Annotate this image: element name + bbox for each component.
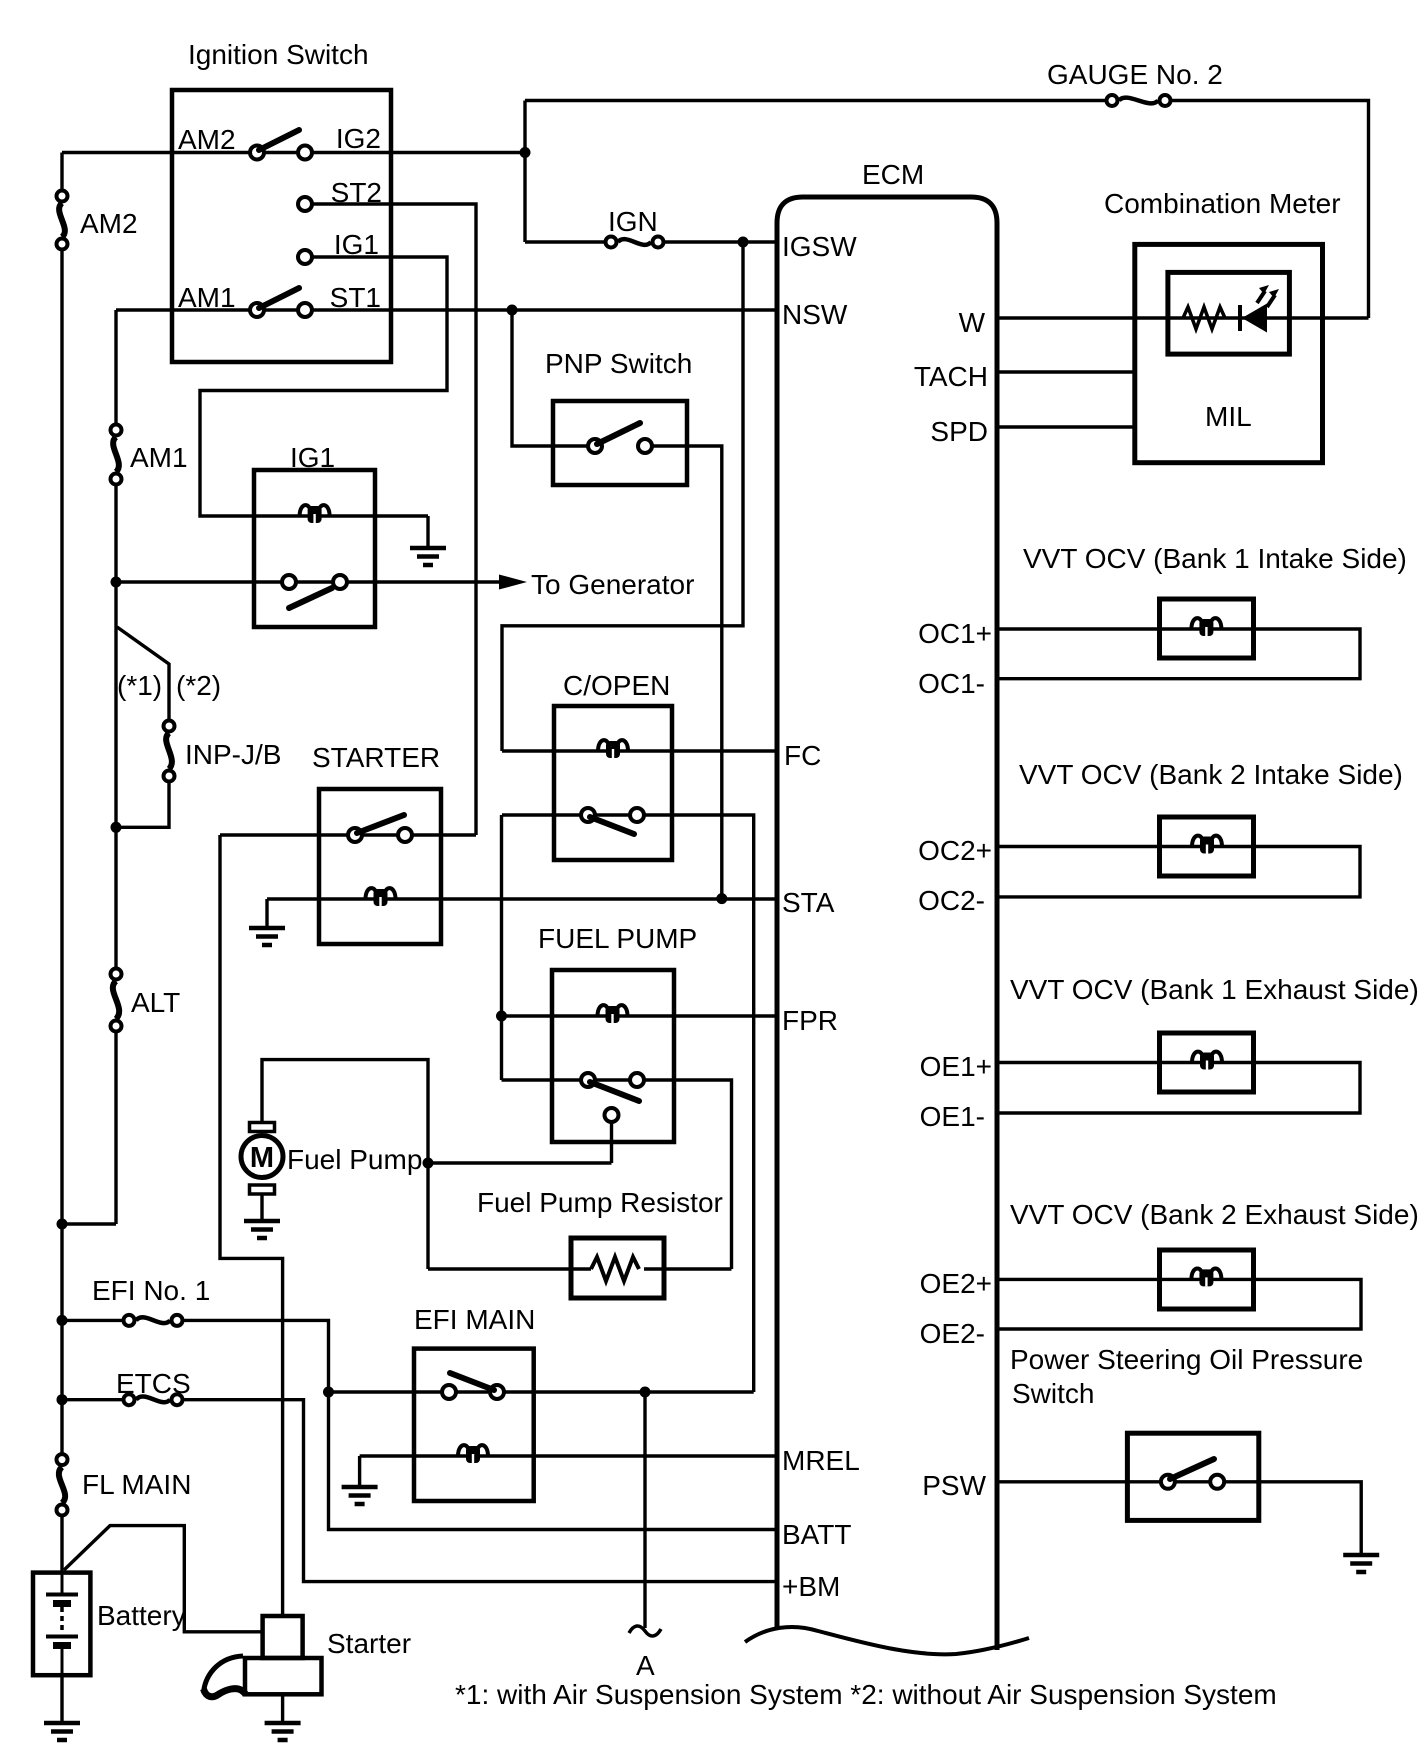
svg-text:(*1): (*1) [117, 670, 162, 701]
svg-text:ECM: ECM [862, 159, 924, 190]
svg-text:C/OPEN: C/OPEN [563, 670, 670, 701]
svg-text:INP-J/B: INP-J/B [185, 739, 281, 770]
svg-text:AM1: AM1 [178, 282, 236, 313]
svg-text:IG1: IG1 [290, 442, 335, 473]
svg-text:STARTER: STARTER [312, 742, 440, 773]
svg-text:PSW: PSW [922, 1470, 986, 1501]
svg-text:OC1-: OC1- [918, 668, 985, 699]
svg-text:TACH: TACH [914, 361, 988, 392]
svg-text:OC2+: OC2+ [918, 835, 992, 866]
svg-text:(*2): (*2) [176, 670, 221, 701]
svg-text:OC2-: OC2- [918, 885, 985, 916]
svg-text:VVT OCV (Bank 1 Exhaust Side): VVT OCV (Bank 1 Exhaust Side) [1010, 974, 1419, 1005]
svg-text:Starter: Starter [327, 1628, 411, 1659]
svg-text:MIL: MIL [1205, 401, 1252, 432]
svg-text:FPR: FPR [782, 1005, 838, 1036]
svg-text:Power Steering Oil Pressure: Power Steering Oil Pressure [1010, 1344, 1363, 1375]
svg-text:FUEL PUMP: FUEL PUMP [538, 923, 697, 954]
svg-text:OE2+: OE2+ [920, 1268, 992, 1299]
svg-text:IG2: IG2 [336, 123, 381, 154]
svg-text:A: A [636, 1650, 655, 1681]
svg-text:*1: with Air Suspension System: *1: with Air Suspension System *2: witho… [455, 1679, 1277, 1710]
svg-text:VVT OCV (Bank 2 Intake Side): VVT OCV (Bank 2 Intake Side) [1019, 759, 1403, 790]
svg-text:AM2: AM2 [178, 124, 236, 155]
svg-text:AM1: AM1 [130, 442, 188, 473]
svg-text:W: W [959, 307, 986, 338]
svg-text:GAUGE No. 2: GAUGE No. 2 [1047, 59, 1223, 90]
svg-text:IG1: IG1 [334, 229, 379, 260]
svg-text:OC1+: OC1+ [918, 618, 992, 649]
svg-text:OE1-: OE1- [920, 1101, 985, 1132]
svg-text:FL MAIN: FL MAIN [82, 1469, 191, 1500]
svg-text:Ignition Switch: Ignition Switch [188, 39, 369, 70]
svg-text:IGSW: IGSW [782, 231, 857, 262]
svg-text:BATT: BATT [782, 1519, 851, 1550]
svg-text:EFI No. 1: EFI No. 1 [92, 1275, 210, 1306]
svg-text:Fuel Pump Resistor: Fuel Pump Resistor [477, 1187, 723, 1218]
svg-text:IGN: IGN [608, 206, 658, 237]
svg-text:FC: FC [784, 740, 821, 771]
svg-text:EFI MAIN: EFI MAIN [414, 1304, 535, 1335]
svg-text:STA: STA [782, 887, 835, 918]
svg-text:OE1+: OE1+ [920, 1051, 992, 1082]
svg-text:ALT: ALT [131, 987, 180, 1018]
svg-text:ETCS: ETCS [116, 1368, 191, 1399]
svg-text:VVT OCV (Bank 1 Intake Side): VVT OCV (Bank 1 Intake Side) [1023, 543, 1407, 574]
svg-text:PNP Switch: PNP Switch [545, 348, 692, 379]
svg-text:NSW: NSW [782, 299, 848, 330]
svg-text:OE2-: OE2- [920, 1318, 985, 1349]
svg-text:VVT OCV (Bank 2 Exhaust Side): VVT OCV (Bank 2 Exhaust Side) [1010, 1199, 1419, 1230]
svg-text:Fuel Pump: Fuel Pump [287, 1144, 422, 1175]
svg-text:Combination Meter: Combination Meter [1104, 188, 1341, 219]
svg-text:AM2: AM2 [80, 208, 138, 239]
svg-text:ST2: ST2 [331, 177, 382, 208]
svg-text:SPD: SPD [930, 416, 988, 447]
svg-text:M: M [250, 1142, 274, 1174]
svg-text:MREL: MREL [782, 1445, 860, 1476]
svg-text:Battery: Battery [97, 1600, 186, 1631]
svg-text:ST1: ST1 [330, 282, 381, 313]
svg-text:Switch: Switch [1012, 1378, 1094, 1409]
svg-text:To Generator: To Generator [531, 569, 694, 600]
svg-text:+BM: +BM [782, 1571, 840, 1602]
